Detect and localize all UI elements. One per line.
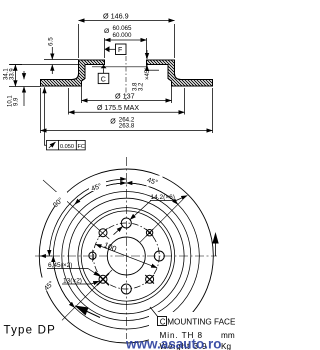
rotation arrow bottom-left <box>75 306 101 318</box>
svg-text:263.8: 263.8 <box>119 123 135 130</box>
dimension Ø 146.9 <box>79 21 175 59</box>
45 degree ray <box>140 199 183 242</box>
svg-text:×45°: ×45° <box>145 67 151 80</box>
right side datum arrow <box>212 232 218 256</box>
dimension Ø 175.5 MAX <box>69 88 185 115</box>
svg-text:Ø 175.5 MAX: Ø 175.5 MAX <box>97 105 139 112</box>
dimension 100 (bolt circle) <box>96 244 158 268</box>
pin hole 7:30 <box>99 275 107 283</box>
label 6,45(x2) <box>47 269 100 277</box>
vertical centerline <box>125 157 127 339</box>
marked pin hole 1:30 <box>146 229 153 236</box>
svg-text:MOUNTING FACE: MOUNTING FACE <box>167 318 235 327</box>
bolt hole 9:00 <box>89 252 96 259</box>
X marks on pin hole 7:30 <box>97 273 109 285</box>
225 degree ray <box>62 270 112 320</box>
runout feature control frame 0.050 FC <box>45 87 86 150</box>
svg-text:Ø 146.9: Ø 146.9 <box>103 12 129 21</box>
dimension 34.1 / 33.9 (vertical, far left) <box>10 65 23 87</box>
friction band outer circle <box>53 183 199 329</box>
ring bottom extension line left <box>9 86 41 88</box>
svg-text:6.5: 6.5 <box>48 37 55 46</box>
dimension 6.5 (vertical, left of hat) <box>51 47 53 74</box>
section centerline <box>125 56 127 100</box>
svg-text:0.050: 0.050 <box>60 144 74 150</box>
bolt hole 6:00 <box>121 284 131 294</box>
circle 175.5 <box>69 198 185 314</box>
datum C flag on mounting face <box>98 65 109 84</box>
friction ring + hat section left (hatched) <box>41 60 105 86</box>
cross tick on 10:30 hole <box>99 228 108 237</box>
bolt circle 100 dashed <box>93 223 159 289</box>
X mark on 4:30 hole <box>145 275 154 284</box>
friction band inner circle <box>62 192 191 321</box>
angular dimension 90 arc <box>49 179 126 256</box>
mounting face extension line (datum C plane) <box>9 64 79 66</box>
svg-text:C: C <box>101 77 106 84</box>
135 degree ray <box>43 180 109 239</box>
datum F flag <box>105 44 127 55</box>
svg-text:F: F <box>118 47 122 54</box>
recess bottom edge across bore <box>92 66 147 68</box>
dimension Ø 137 <box>82 81 172 103</box>
svg-text:www.asauto.ro: www.asauto.ro <box>125 337 222 350</box>
horizontal centerline <box>35 255 217 257</box>
bore circle 60 <box>107 237 145 275</box>
dimension Ø 264.2 / 263.8 <box>41 88 213 133</box>
dimension 10.1 / 9.9 (ring thickness) <box>23 71 25 106</box>
svg-text:Ø 137: Ø 137 <box>115 92 135 101</box>
label 14.2(x6) <box>114 196 188 235</box>
hat top extension line left <box>44 59 79 61</box>
svg-text:Ø: Ø <box>104 28 110 35</box>
svg-text:FC: FC <box>78 144 85 150</box>
dimension Ø 60.065 / 60.000 <box>105 38 147 58</box>
left edge arrow on centerline <box>40 255 52 257</box>
hat underside recess edge right <box>147 69 160 71</box>
bolt hole 12:00 <box>121 218 131 228</box>
svg-text:14.2(×6): 14.2(×6) <box>151 194 175 201</box>
friction ring + hat section right (hatched) <box>147 60 213 86</box>
svg-text:Type DP: Type DP <box>4 325 57 337</box>
bolt hole 3:00 <box>154 251 164 261</box>
svg-text:mm: mm <box>221 331 235 340</box>
tick on 9:00 hole <box>92 250 94 262</box>
svg-text:Kg: Kg <box>221 342 231 350</box>
svg-text:60.000: 60.000 <box>113 32 132 39</box>
dimension 3.8/3.2 x45 (near bore) <box>146 50 148 71</box>
disc OD circle (264) <box>39 169 213 343</box>
pin hole 4:30 <box>146 275 154 283</box>
svg-text:Ø: Ø <box>110 119 116 126</box>
circle 146.9 <box>78 208 175 305</box>
pin hole 1:30 <box>146 230 152 236</box>
footer notes <box>149 312 235 350</box>
svg-text:3.2: 3.2 <box>139 82 145 91</box>
svg-text:C: C <box>160 317 166 326</box>
label 13(x2) <box>62 281 99 284</box>
svg-text:33.9: 33.9 <box>10 68 16 80</box>
svg-text:13(×2): 13(×2) <box>63 278 82 285</box>
svg-text:9.9: 9.9 <box>14 97 20 106</box>
pilot hole 10:30 <box>99 229 107 237</box>
angular dimension 45 bottom-left arc <box>53 256 74 308</box>
circle 137 <box>81 211 171 301</box>
svg-text:6,45(×2): 6,45(×2) <box>48 262 72 269</box>
angular dimension 45+45 arrows on friction circle <box>75 183 178 204</box>
